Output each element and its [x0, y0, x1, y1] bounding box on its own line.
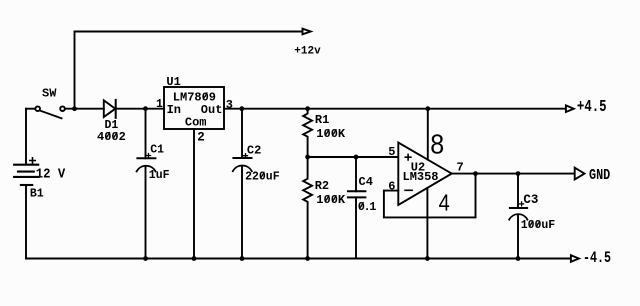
node junction R1 top: [305, 106, 310, 111]
svg-text:GND: GND: [589, 167, 610, 183]
wire U1 pin2 to ground rail: [193, 129, 195, 259]
slashed zero marks: [106, 93, 540, 227]
svg-text:C1: C1: [150, 143, 164, 156]
svg-text:100K: 100K: [316, 127, 346, 141]
battery B1 plus marker: [30, 158, 35, 163]
node junction pin2 bottom: [192, 256, 197, 261]
capacitor C3 polarity plus: [520, 202, 524, 206]
node junction C3 tap: [516, 171, 521, 176]
capacitor C1 bottom lead: [145, 167, 147, 258]
node junction C3 bottom: [516, 256, 521, 261]
svg-text:2: 2: [197, 131, 205, 145]
wire pin8 supply drop: [427, 109, 429, 160]
svg-text:+4.5: +4.5: [577, 99, 607, 117]
capacitor C2 top plate: [233, 157, 251, 159]
wire +12v top rail: [75, 31, 303, 33]
svg-text:4002: 4002: [97, 130, 126, 144]
svg-text:3: 3: [226, 98, 233, 112]
diode D1 cathode bar: [115, 100, 117, 118]
wire bottom -4.5 rail: [26, 258, 571, 260]
svg-text:220uF: 220uF: [245, 171, 280, 184]
svg-text:7: 7: [457, 160, 464, 174]
node junction pin4 bottom: [425, 256, 430, 261]
svg-text:C3: C3: [523, 193, 538, 207]
svg-text:1: 1: [156, 98, 163, 111]
node junction C4 tap: [354, 155, 359, 160]
svg-text:5: 5: [388, 145, 395, 159]
op-amp U2 plus input marker: [405, 154, 411, 160]
node junction op-amp pin8 supply: [425, 106, 430, 111]
node junction feedback/output: [473, 171, 478, 176]
svg-text:100K: 100K: [316, 193, 346, 207]
node junction R1/R2 divider: [305, 155, 310, 160]
svg-text:LM358: LM358: [403, 170, 439, 184]
svg-text:8: 8: [430, 128, 444, 159]
wire op-amp output to GND arrow: [452, 173, 575, 175]
resistor R1 zigzag: [303, 109, 312, 157]
node GND arrowhead: [575, 168, 585, 180]
switch SW left contact: [35, 106, 40, 111]
svg-text:4: 4: [439, 189, 450, 216]
battery B1 plate short bottom: [21, 184, 32, 186]
capacitor C4 top lead: [355, 157, 357, 191]
svg-text:U1: U1: [166, 75, 180, 89]
svg-text:LM7809: LM7809: [173, 90, 216, 104]
node junction C2 bottom: [240, 256, 245, 261]
wire left vertical (switch to battery top): [25, 109, 27, 165]
capacitor C4 bottom lead: [355, 197, 357, 258]
capacitor C3 top lead: [517, 174, 519, 208]
node junction D1/C1/pin1: [143, 106, 148, 111]
svg-text:In: In: [167, 103, 181, 117]
battery B1 plate long top: [14, 164, 38, 166]
wire battery to bottom rail: [25, 185, 27, 259]
wire pin4 supply drop: [426, 188, 428, 258]
resistor R2 zigzag: [303, 157, 312, 259]
capacitor C2 curved plate: [233, 166, 252, 172]
capacitor C1 polarity plus: [147, 154, 151, 158]
switch SW right contact: [60, 106, 65, 111]
capacitor C3 top plate: [510, 207, 527, 209]
capacitor C2 bottom lead: [241, 167, 243, 259]
svg-text:-4.5: -4.5: [583, 249, 611, 267]
svg-text:SW: SW: [42, 86, 57, 100]
svg-text:Com: Com: [185, 116, 207, 130]
wire pin6 feedback loop: [384, 174, 476, 218]
capacitor C3 bottom lead: [517, 216, 519, 259]
wire mid junction to op-amp pin5: [308, 156, 399, 158]
capacitor C4 plate 2: [348, 196, 365, 198]
capacitor C1 top plate: [137, 157, 155, 159]
svg-text:B1: B1: [30, 188, 44, 201]
wire +12v vertical riser: [74, 32, 76, 109]
node -4.5 arrowhead: [571, 255, 579, 262]
node +4.5 arrowhead: [566, 105, 574, 112]
op-amp U2 triangle: [398, 143, 451, 206]
op-amp U2 minus input marker: [405, 189, 412, 191]
node junction C1 bottom: [143, 256, 148, 261]
svg-text:+12v: +12v: [294, 45, 321, 57]
svg-text:1uF: 1uF: [149, 169, 170, 182]
wire battery to switch: [26, 108, 35, 110]
capacitor C3 curved plate: [509, 214, 527, 219]
switch SW blade: [40, 111, 62, 119]
svg-text:C4: C4: [359, 175, 373, 189]
regulator U1 box: [164, 87, 224, 129]
capacitor C2 polarity plus: [244, 154, 248, 158]
svg-text:C2: C2: [247, 144, 261, 158]
svg-text:R1: R1: [315, 113, 329, 127]
diode D1 triangle: [104, 100, 116, 117]
wire switch to diode: [65, 108, 104, 110]
node junction R2 bottom: [305, 256, 310, 261]
capacitor C2 top lead: [241, 109, 243, 158]
capacitor C1 curved plate: [137, 166, 156, 172]
capacitor C4 plate 1: [348, 190, 365, 192]
wire U1 pin3 to +4.5 rail: [224, 108, 566, 110]
svg-text:100uF: 100uF: [521, 219, 556, 232]
battery B1 plate long 3: [14, 176, 38, 178]
node junction pin3/C2: [239, 106, 244, 111]
svg-text:R2: R2: [315, 179, 329, 193]
wire diode to U1 pin1: [116, 108, 164, 110]
battery B1 plate short 2: [18, 171, 34, 173]
node junction at +12v tap: [72, 106, 77, 111]
svg-text:6: 6: [388, 180, 395, 194]
capacitor C1 top lead: [145, 109, 147, 159]
svg-text:12 V: 12 V: [36, 166, 65, 182]
node +12v arrowhead: [303, 29, 311, 35]
